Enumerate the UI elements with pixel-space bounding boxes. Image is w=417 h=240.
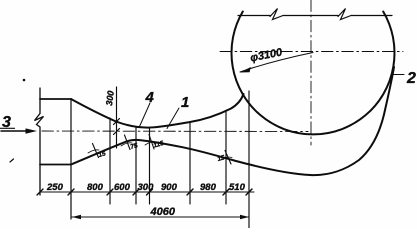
svg-text:800: 800 — [87, 182, 104, 193]
angle tick at x=127 — [125, 135, 131, 150]
svg-text:980: 980 — [200, 182, 217, 193]
duct axis centerline — [42, 130, 308, 133]
svg-text:3: 3 — [2, 114, 11, 131]
svg-text:2: 2 — [406, 70, 416, 87]
horizontal centerline of circle — [220, 51, 403, 53]
dimension line row 1 — [41, 191, 254, 193]
underline of label 3 — [0, 127, 15, 129]
stray ink dot — [23, 79, 26, 82]
flange vertical / 4060 extension — [70, 99, 72, 219]
svg-text:4060: 4060 — [150, 206, 176, 218]
angle tick at x=228 — [225, 151, 231, 165]
extension line at x=149.5 — [149, 128, 151, 204]
extension line at x=110 — [109, 118, 111, 204]
leader line of label 2 — [391, 74, 404, 76]
svg-text:900: 900 — [161, 182, 178, 193]
radius line phi3100 — [240, 53, 313, 73]
stray ink slash — [10, 159, 14, 162]
extension line at x=226 — [225, 111, 227, 205]
svg-text:1: 1 — [181, 94, 189, 111]
break line across impeller top — [238, 15, 392, 17]
angle tick at x=96 — [93, 144, 99, 158]
vertical centerline of circle — [310, 0, 312, 145]
arrowhead of radius line — [240, 67, 251, 73]
break zigzag left — [270, 9, 283, 20]
leader line of label 1 — [167, 108, 179, 129]
flow arrow at inlet (item 3) — [1, 130, 28, 132]
300 dimension extension line — [116, 87, 118, 148]
svg-text:250: 250 — [46, 182, 64, 193]
svg-text:600: 600 — [114, 182, 131, 193]
duct bottom wall / volute outer curve — [71, 67, 394, 175]
extension line at x=190 — [189, 122, 191, 204]
break zigzag right — [338, 9, 351, 20]
leader line of label 4 — [140, 103, 151, 127]
extension line at x=136 — [135, 127, 137, 204]
dimension ticks row 1 — [37, 189, 252, 195]
dimension line 4060 — [72, 216, 249, 218]
duct top flange line — [40, 98, 71, 100]
svg-text:300: 300 — [104, 90, 116, 106]
svg-text:300: 300 — [138, 182, 155, 193]
angle tick at x=151 — [149, 135, 154, 150]
extension line at x=249 (volute end plane) — [248, 91, 250, 228]
svg-text:4: 4 — [145, 89, 155, 106]
duct bottom flange line — [40, 164, 71, 166]
duct top wall curve (item 1) — [71, 94, 244, 128]
svg-text:510: 510 — [229, 182, 246, 193]
inlet section plane with break zigzag — [35, 88, 44, 195]
impeller circle U (item 2, φ3100) — [232, 12, 395, 135]
